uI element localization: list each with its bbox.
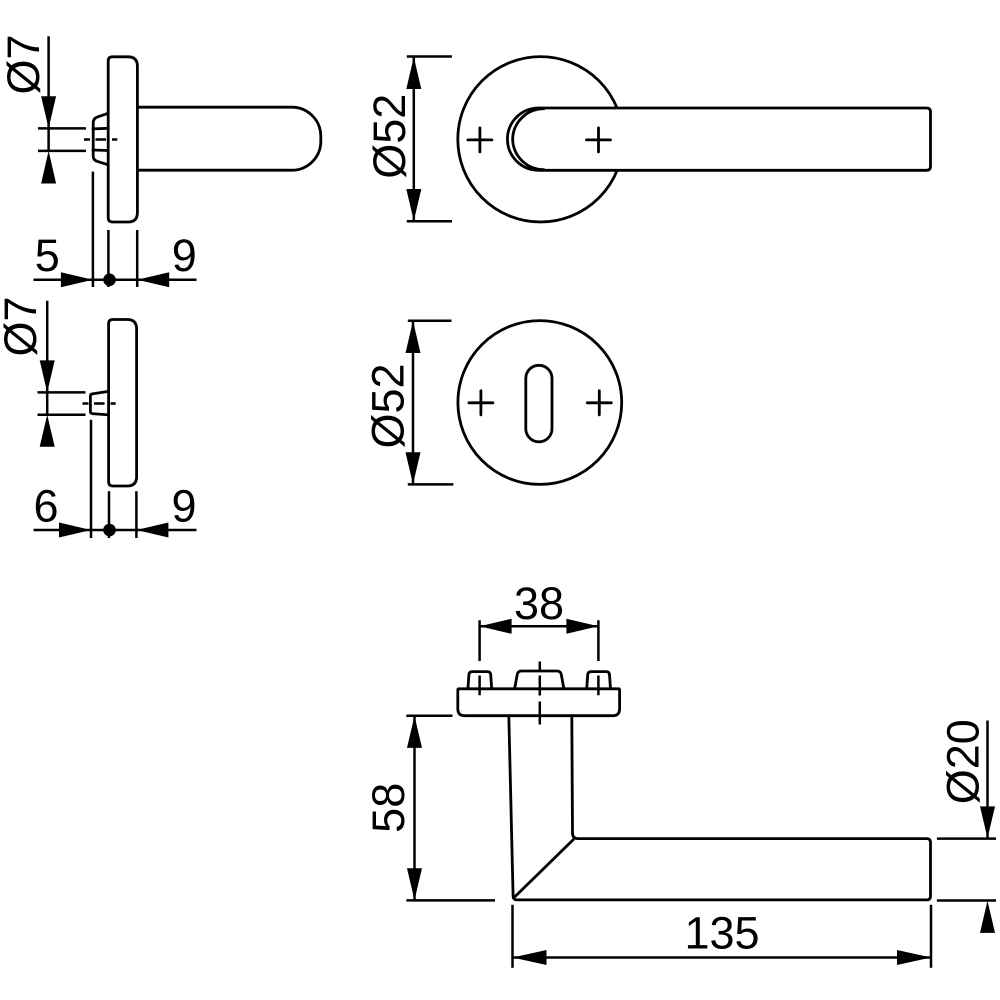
dimension 58 (view E) [363, 716, 495, 901]
dimension 6 / 9 (view B) [33, 420, 196, 538]
svg-text:Ø52: Ø52 [364, 94, 415, 179]
svg-text:135: 135 [684, 908, 759, 959]
dimension 135 (view E) [513, 905, 932, 968]
extension line nub B [90, 420, 93, 538]
arrow Ø7 B top [40, 360, 55, 392]
dim line Ø7 A [47, 36, 50, 151]
arrow 135 right [897, 950, 931, 965]
svg-text:9: 9 [172, 230, 197, 281]
VIEW E : profile of lever handle (bottom) [458, 662, 931, 900]
svg-text:9: 9 [171, 481, 196, 532]
dim line 58 [413, 716, 416, 900]
VIEW A : side view of lever rose (top-left) [84, 57, 321, 222]
arrow Ø52 C top [406, 57, 421, 89]
arrow 5 A [61, 272, 93, 287]
svg-text:5: 5 [35, 230, 60, 281]
dim line Ø20 [986, 721, 989, 839]
extension line 38 right [597, 620, 600, 695]
rose D circle [458, 321, 622, 485]
tick Ø7 B top [38, 391, 86, 394]
screw cross D right [587, 391, 611, 415]
dimension 5 / 9 (view A) [34, 172, 197, 288]
svg-text:Ø52: Ø52 [363, 363, 414, 448]
arrow Ø7 A top [41, 96, 56, 128]
arrow 9 A [137, 272, 169, 287]
dimension Ø7 (view A) [0, 34, 86, 183]
extension line rose A right [136, 230, 139, 287]
arrow 58 top [407, 716, 422, 748]
dot 5-9 A [103, 274, 116, 287]
collar A (spindle boss) [93, 113, 108, 165]
miter line E [514, 840, 573, 898]
VIEW D : front view of key rose (middle-right) [458, 321, 622, 485]
arrow 58 bottom [407, 868, 422, 900]
dim line 38 [480, 625, 599, 628]
arrow Ø20 top [980, 806, 995, 838]
svg-text:Ø20: Ø20 [938, 719, 989, 804]
dim line Ø7 B [46, 301, 49, 415]
arrow Ø52 D bottom [406, 452, 421, 484]
dimension 38 (view E) [480, 578, 599, 695]
arrow 135 left [513, 950, 547, 965]
extension line rose B left [108, 491, 111, 538]
tick Ø52 D top [408, 320, 452, 323]
extension line rose B right [135, 491, 138, 538]
lever A side profile [137, 107, 320, 170]
screw cross C left [468, 128, 492, 152]
centerline E (dash-dot vertical) [539, 662, 542, 725]
dot 6-9 B [103, 524, 116, 537]
rose B side profile [109, 320, 137, 487]
keyhole slot [526, 365, 552, 442]
dim line 135 [513, 956, 932, 959]
rose C circle [458, 57, 623, 222]
rose A side profile [108, 57, 137, 222]
svg-text:6: 6 [33, 481, 58, 532]
centerline B (dash-dot) [83, 402, 116, 405]
tick 58 top [406, 715, 452, 718]
dim line Ø52 C [413, 57, 416, 221]
tick Ø52 D bottom [408, 483, 454, 486]
lever C neck inner arc [513, 109, 544, 170]
arrow 6 B [59, 523, 91, 538]
tick Ø52 C bottom [407, 220, 452, 223]
screw E right [587, 672, 611, 689]
arrow Ø7 B bottom [40, 415, 55, 447]
tick Ø20 top [937, 837, 996, 840]
tick Ø7 A bottom [38, 150, 86, 153]
arrow 38 left [480, 619, 512, 634]
dimension Ø7 (view B) [0, 296, 86, 446]
svg-text:Ø7: Ø7 [0, 296, 46, 356]
neck and grip E outline [509, 716, 931, 900]
screw cross C right [587, 128, 611, 152]
extension line 135 left [511, 905, 514, 968]
tick Ø7 A top [38, 127, 86, 130]
screw E left [468, 672, 492, 689]
arrow 9 B [136, 523, 168, 538]
tick Ø20 bottom [937, 899, 996, 902]
svg-text:Ø7: Ø7 [0, 34, 49, 94]
tick Ø52 C top [407, 55, 452, 58]
arrow Ø52 C bottom [406, 189, 421, 221]
svg-text:38: 38 [514, 578, 564, 629]
cylinder nub B [90, 391, 108, 415]
spindle hole lower line [93, 149, 108, 152]
lever C outline [507, 108, 930, 170]
dimension Ø52 (view C) [364, 57, 452, 222]
svg-text:58: 58 [363, 783, 414, 833]
arrow Ø7 A bottom [41, 151, 56, 184]
centerline A (dash-dot) [84, 138, 117, 141]
spindle hole upper line [93, 127, 108, 130]
tick 58 bottom [406, 899, 495, 902]
dim line Ø52 D [412, 321, 415, 484]
rose E bar [458, 689, 620, 716]
tick Ø7 B bottom [38, 413, 86, 416]
extension line 135 right [930, 905, 933, 968]
arrow Ø52 D top [406, 321, 421, 353]
VIEW B : side view of key rose (middle-left) [83, 320, 137, 487]
dim line 6-9 B [34, 529, 197, 532]
extension line 38 left [478, 620, 481, 695]
spindle nub E [515, 671, 564, 689]
dimension Ø52 (view D) [363, 321, 454, 485]
arrow Ø20 bottom [980, 901, 995, 933]
screw cross D left [469, 391, 493, 415]
extension line rose A left [107, 230, 110, 287]
arrow 38 right [566, 619, 598, 634]
VIEW C : front view of lever on rose (top-right) [458, 57, 931, 222]
dimension Ø20 (view E) [937, 719, 996, 933]
extension line collar A [92, 172, 95, 287]
dim line 5-9 A [34, 279, 197, 282]
